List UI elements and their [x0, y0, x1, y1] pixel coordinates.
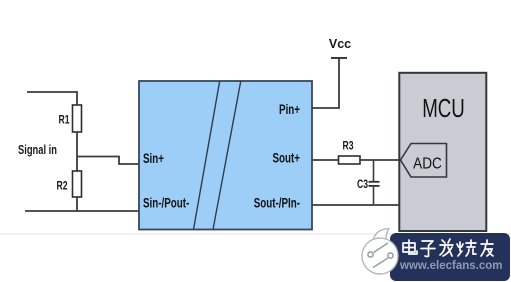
glyph 1: [403, 240, 417, 254]
resistor R1: [58, 105, 81, 132]
wire node to Sin+: [77, 157, 139, 165]
svg-text:Pin+: Pin+: [279, 101, 300, 117]
glyph 5: [481, 240, 493, 256]
watermark logo circle: [362, 229, 398, 274]
svg-text:Sin-/Pout-: Sin-/Pout-: [143, 195, 189, 211]
Vcc supply: [329, 37, 351, 58]
svg-text:ADC: ADC: [413, 156, 442, 173]
wire R3 to ADC: [360, 159, 401, 161]
watermark title (Chinese glyph strokes): [403, 239, 493, 257]
wire Sout-/PIn- rail: [312, 204, 400, 206]
glyph 3: [440, 239, 453, 256]
resistor R3: [339, 140, 361, 164]
faint rule: [0, 233, 511, 235]
resistor R2: [56, 171, 81, 197]
MCU box: [399, 73, 486, 231]
ADC block: [401, 144, 447, 178]
isolation amplifier U1: [139, 81, 312, 230]
svg-text:C3: C3: [357, 179, 368, 192]
glyph 4: [457, 240, 476, 256]
wire R2 bottom: [76, 197, 78, 211]
wire R1 to R2: [76, 132, 78, 171]
wire Pin+ to Vcc: [312, 58, 339, 108]
wire input bottom rail: [25, 210, 139, 212]
svg-text:Sout-/PIn-: Sout-/PIn-: [254, 195, 300, 211]
wire C3 branch bottom: [373, 186, 375, 205]
svg-text:R1: R1: [58, 114, 69, 127]
svg-text:R2: R2: [56, 180, 67, 193]
glyph 2: [421, 241, 435, 257]
svg-text:Vcc: Vcc: [329, 37, 351, 51]
svg-text:Signal in: Signal in: [18, 144, 57, 158]
wire C3 branch top: [373, 160, 375, 181]
capacitor C3: [357, 179, 380, 192]
svg-text:Sout+: Sout+: [273, 150, 300, 166]
watermark logo pins: [368, 243, 393, 268]
svg-text:Sin+: Sin+: [143, 150, 164, 166]
isolation barrier line 1: [194, 81, 220, 230]
wire Sout+ to R3: [312, 159, 339, 161]
svg-text:R3: R3: [342, 140, 353, 153]
wire input top: [27, 92, 77, 105]
isolation barrier line 2: [213, 81, 241, 230]
svg-text:www.elecfans.com: www.elecfans.com: [399, 260, 502, 272]
watermark panel: [390, 233, 510, 281]
svg-text:MCU: MCU: [422, 93, 465, 123]
